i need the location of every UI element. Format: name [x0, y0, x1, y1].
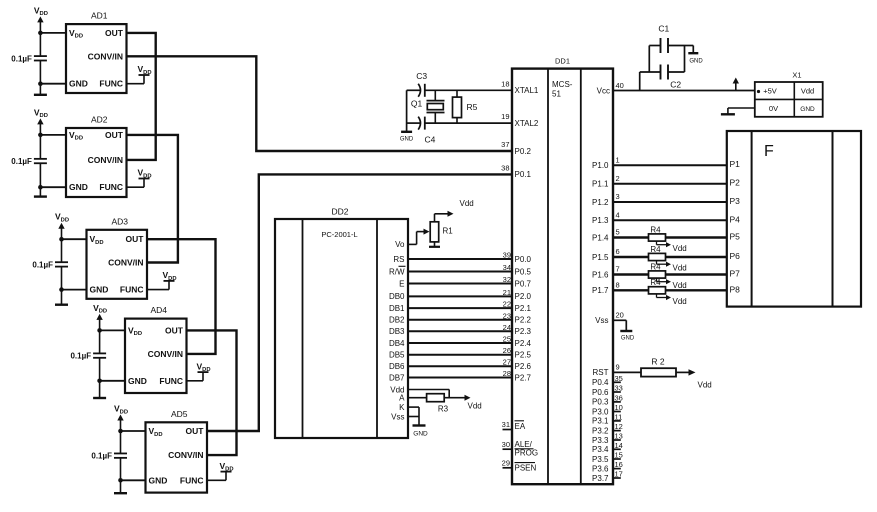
- svg-text:P1.2: P1.2: [592, 198, 609, 207]
- svg-text:GND: GND: [69, 182, 88, 192]
- power VDD symbol for AD4: [93, 303, 107, 331]
- resistor R4 pull-up on P1.7 with Vdd arrow: [649, 278, 687, 306]
- DD1 left pin labels XTAL1 XTAL2 P0.x P2.x: [515, 86, 539, 382]
- wire C1 to C2 right: [684, 46, 686, 73]
- svg-text:XTAL1: XTAL1: [515, 86, 539, 95]
- resistor R3 with Vdd arrow: [408, 394, 482, 414]
- svg-text:18: 18: [501, 79, 509, 88]
- wire DD1 P1.7 pin 8 to F P8: [592, 281, 727, 296]
- svg-text:+5V: +5V: [763, 87, 777, 96]
- DD1 P3.1 pin 11 stub: [592, 412, 622, 425]
- capacitor 0.1uF for AD2: [11, 135, 47, 187]
- svg-text:AD1: AD1: [91, 11, 108, 21]
- ground for DD2 K/Vss: [413, 426, 429, 438]
- indicator block F with pins P1-P8: [727, 131, 861, 307]
- svg-text:P0.3: P0.3: [592, 398, 609, 407]
- power VDD on AD1 FUNC pin: [127, 64, 152, 84]
- wire C1/C2 to ground: [685, 46, 694, 53]
- svg-text:Q1: Q1: [411, 99, 423, 109]
- svg-text:C3: C3: [416, 71, 427, 81]
- DD1 pin 19 number: [501, 112, 509, 121]
- svg-text:P1.1: P1.1: [592, 180, 609, 189]
- resistor R5: [453, 90, 478, 123]
- svg-text:P1.7: P1.7: [592, 286, 609, 295]
- svg-text:Vdd: Vdd: [801, 87, 814, 96]
- wire AD1 GND pin: [38, 81, 66, 86]
- DD1 P3.0 pin 10 stub: [592, 403, 623, 416]
- svg-text:9: 9: [616, 363, 620, 372]
- DD1 P3.4 pin 14 stub: [592, 441, 623, 454]
- IC DD2 PC-2001-L: [275, 207, 408, 439]
- power tap arrow on +5V rail: [733, 78, 739, 91]
- crystal Q1: [411, 90, 445, 123]
- svg-text:DB2: DB2: [389, 316, 405, 325]
- svg-text:P2.3: P2.3: [515, 327, 532, 336]
- svg-text:K: K: [399, 403, 405, 412]
- IC DD1 MCS-51 microcontroller: [512, 57, 613, 485]
- power VDD symbol for AD3: [55, 212, 69, 240]
- wire C1/C2 left leg to Vcc rail: [639, 72, 641, 91]
- svg-text:0.1µF: 0.1µF: [11, 157, 32, 166]
- svg-text:31: 31: [502, 420, 510, 429]
- wire AD4 GND pin: [97, 379, 125, 384]
- svg-text:P3.4: P3.4: [592, 445, 609, 454]
- connector X1: [755, 71, 823, 117]
- capacitor C3: [416, 71, 427, 97]
- svg-text:AD3: AD3: [111, 216, 128, 226]
- power VDD symbol for AD5: [114, 404, 128, 432]
- capacitor 0.1uF for AD3: [32, 239, 68, 289]
- svg-text:GND: GND: [69, 79, 88, 89]
- capacitor 0.1uF for AD1: [11, 33, 47, 84]
- svg-text:FUNC: FUNC: [99, 79, 123, 89]
- DD1 P3.7 pin 17 stub: [592, 470, 623, 483]
- wire DD2 DB6 to DD1 pin 27: [408, 358, 512, 367]
- svg-text:21: 21: [503, 288, 511, 297]
- svg-text:Vdd: Vdd: [673, 264, 687, 273]
- wire DD2 DB4 to DD1 pin 25: [408, 335, 512, 344]
- wire DD2 E to DD1 pin 32: [408, 275, 512, 284]
- power VDD symbol for AD1: [34, 5, 48, 33]
- svg-text:DD1: DD1: [555, 57, 570, 66]
- ground for X1 0V: [721, 113, 735, 115]
- wire AD2 VDD pin to rail: [38, 133, 66, 138]
- svg-text:CONV/IN: CONV/IN: [168, 450, 203, 460]
- capacitor C1: [649, 24, 684, 54]
- op-amp/ADC AD2: [66, 115, 127, 198]
- svg-text:GND: GND: [400, 137, 414, 143]
- svg-text:DB3: DB3: [389, 327, 405, 336]
- svg-text:GND: GND: [800, 106, 815, 113]
- ground for AD4: [93, 381, 106, 398]
- svg-text:P2: P2: [730, 178, 741, 188]
- wire AD5 OUT to DD1 P0.1 pin 38: [207, 174, 512, 431]
- wire X1 0V to ground: [728, 108, 755, 114]
- svg-text:P2.1: P2.1: [515, 304, 532, 313]
- wire DD2 Vo to R1 wiper: [408, 229, 430, 245]
- svg-text:P3.7: P3.7: [592, 474, 609, 483]
- wire DD2 DB1 to DD1 pin 22: [408, 300, 512, 309]
- svg-text:GND: GND: [149, 475, 168, 485]
- svg-text:P1.3: P1.3: [592, 216, 609, 225]
- svg-text:GND: GND: [621, 336, 635, 342]
- svg-text:34: 34: [503, 263, 511, 272]
- svg-text:30: 30: [502, 440, 510, 449]
- ground for AD2: [34, 187, 47, 196]
- svg-text:P3.6: P3.6: [592, 464, 609, 473]
- op-amp/ADC AD3: [87, 216, 148, 298]
- svg-text:C2: C2: [670, 80, 681, 90]
- svg-text:P3.3: P3.3: [592, 436, 609, 445]
- svg-text:Vcc: Vcc: [597, 87, 610, 96]
- DD1 pin 40 number: [616, 81, 624, 90]
- svg-text:R 2: R 2: [651, 357, 665, 367]
- power VDD symbol for AD2: [34, 107, 48, 134]
- wire AD1 CONV/IN to DD1 P0.2 pin 37: [127, 56, 513, 151]
- svg-text:AD2: AD2: [91, 115, 108, 125]
- svg-text:Vss: Vss: [595, 316, 608, 325]
- wire DD1 P1.1 pin 2 to F P2: [592, 174, 727, 189]
- svg-text:24: 24: [503, 323, 511, 332]
- ground for DD1 Vss: [620, 331, 635, 342]
- resistor R4 pull-up on P1.5 with Vdd arrow: [649, 245, 687, 273]
- svg-text:DB6: DB6: [389, 362, 405, 371]
- svg-text:8: 8: [616, 281, 620, 290]
- DD1 Vss pin 20: [595, 311, 626, 331]
- capacitor 0.1uF for AD4: [70, 330, 106, 380]
- svg-text:PC-2001-L: PC-2001-L: [321, 230, 357, 239]
- svg-text:28: 28: [503, 369, 511, 378]
- wire DD2 Vdd pin: [408, 390, 449, 398]
- svg-text:DB0: DB0: [389, 292, 405, 301]
- wire AD2 GND pin: [38, 185, 66, 190]
- svg-text:40: 40: [616, 81, 624, 90]
- svg-text:CONV/IN: CONV/IN: [108, 258, 143, 268]
- wire DD1 P1.6 pin 7 to F P7: [592, 265, 727, 280]
- svg-text:OUT: OUT: [126, 234, 145, 244]
- svg-text:37: 37: [501, 140, 509, 149]
- svg-text:FUNC: FUNC: [99, 182, 123, 192]
- svg-text:CONV/IN: CONV/IN: [88, 51, 123, 61]
- svg-text:P2.7: P2.7: [515, 373, 532, 382]
- svg-text:PROG: PROG: [515, 448, 539, 457]
- svg-text:GND: GND: [128, 376, 147, 386]
- svg-text:0.1µF: 0.1µF: [11, 54, 32, 63]
- power VDD on AD4 FUNC pin: [187, 361, 211, 381]
- op-amp/ADC AD5: [146, 409, 208, 493]
- svg-text:GND: GND: [689, 59, 703, 65]
- svg-text:P1.5: P1.5: [592, 253, 609, 262]
- wire DD2 R/W to DD1 pin 34: [408, 263, 512, 272]
- resistor R4 pull-up on P1.6 with Vdd arrow: [649, 262, 687, 290]
- DD2 right pin labels Vo RS R/W E DB0-DB7 Vdd A K Vss: [389, 240, 406, 421]
- svg-text:P4: P4: [730, 214, 741, 224]
- DD1 P0.6 pin 33 stub: [592, 384, 623, 397]
- svg-text:Vo: Vo: [395, 240, 405, 249]
- svg-text:OUT: OUT: [105, 130, 124, 140]
- svg-text:P6: P6: [730, 251, 741, 261]
- svg-text:C1: C1: [658, 24, 669, 34]
- DD1 P3.2 pin 12 stub: [592, 422, 623, 435]
- svg-text:Vss: Vss: [391, 412, 404, 421]
- svg-text:P3.2: P3.2: [592, 426, 609, 435]
- svg-text:XTAL2: XTAL2: [515, 119, 539, 128]
- svg-text:P3.1: P3.1: [592, 417, 609, 426]
- svg-text:DB7: DB7: [389, 373, 405, 382]
- svg-text:P5: P5: [730, 232, 741, 242]
- svg-text:P0.5: P0.5: [515, 267, 532, 276]
- svg-text:P0.7: P0.7: [515, 279, 532, 288]
- svg-text:R3: R3: [438, 405, 449, 414]
- svg-text:R5: R5: [467, 102, 478, 112]
- power VDD on AD2 FUNC pin: [127, 168, 152, 188]
- svg-text:P7: P7: [730, 269, 741, 279]
- svg-text:P0.6: P0.6: [592, 388, 609, 397]
- svg-text:6: 6: [616, 247, 620, 256]
- svg-text:FUNC: FUNC: [159, 376, 183, 386]
- wire DD2 DB3 to DD1 pin 24: [408, 323, 512, 332]
- svg-text:DB1: DB1: [389, 304, 405, 313]
- DD1 pin 37 number: [501, 140, 509, 149]
- svg-text:RST: RST: [593, 368, 609, 377]
- svg-text:OUT: OUT: [105, 28, 124, 38]
- svg-text:CONV/IN: CONV/IN: [88, 155, 123, 165]
- svg-text:GND: GND: [90, 285, 109, 295]
- ground for AD5: [114, 480, 127, 493]
- svg-text:R4: R4: [650, 262, 661, 271]
- svg-text:DB4: DB4: [389, 339, 405, 348]
- wire DD2 DB0 to DD1 pin 21: [408, 288, 512, 297]
- svg-text:FUNC: FUNC: [180, 475, 204, 485]
- svg-text:7: 7: [616, 265, 620, 274]
- resistor R4 pull-up on P1.4 with Vdd arrow: [649, 225, 687, 253]
- wire AD3 OUT to AD4 CONV/IN: [147, 239, 216, 354]
- svg-text:39: 39: [503, 251, 511, 260]
- wire DD1 P1.3 pin 4 to F P4: [592, 211, 727, 226]
- svg-text:P0.1: P0.1: [515, 170, 532, 179]
- op-amp/ADC AD4: [125, 305, 187, 393]
- svg-text:DD2: DD2: [331, 207, 348, 217]
- wire AD4 VDD pin to rail: [97, 328, 125, 333]
- svg-text:P0.2: P0.2: [515, 147, 532, 156]
- svg-text:20: 20: [616, 311, 624, 320]
- DD1 P0.3 pin 36 stub: [592, 393, 623, 406]
- svg-text:R4: R4: [650, 225, 661, 234]
- wire XTAL2 pin 19: [407, 122, 512, 124]
- svg-text:26: 26: [503, 346, 511, 355]
- svg-text:X1: X1: [792, 71, 801, 80]
- svg-text:R4: R4: [650, 278, 661, 287]
- wire AD2 OUT to AD3 CONV/IN: [127, 135, 178, 263]
- wire DD2 DB7 to DD1 pin 28: [408, 369, 512, 378]
- wire DD2 RS to DD1 pin 39: [408, 251, 512, 260]
- capacitor 0.1uF for AD5: [91, 431, 127, 480]
- svg-text:P0.0: P0.0: [515, 255, 532, 264]
- ground for crystal: [400, 132, 414, 143]
- svg-text:P0.4: P0.4: [592, 378, 609, 387]
- svg-text:P3: P3: [730, 196, 741, 206]
- svg-text:Vdd: Vdd: [460, 199, 474, 208]
- svg-text:23: 23: [503, 311, 511, 320]
- wire DD1 Vcc pin 40 to X1 +5V: [613, 90, 755, 92]
- potentiometer R1 with Vdd arrow: [429, 199, 474, 247]
- svg-text:P3.5: P3.5: [592, 455, 609, 464]
- wire DD1 P1.5 pin 6 to F P6: [592, 247, 727, 262]
- svg-text:32: 32: [503, 275, 511, 284]
- ground for C1/C2: [688, 53, 703, 64]
- DD1 P0.4 pin 35 stub: [592, 374, 623, 387]
- svg-text:RS: RS: [393, 255, 404, 264]
- svg-text:P1: P1: [730, 159, 741, 169]
- svg-text:4: 4: [616, 211, 620, 220]
- wire DD2 DB2 to DD1 pin 23: [408, 311, 512, 320]
- wire AD4 OUT to AD5 CONV/IN: [187, 330, 237, 455]
- wire DD2 K and Vss pins: [408, 407, 419, 425]
- wire XTAL1 pin 18: [407, 89, 512, 91]
- svg-text:2: 2: [616, 174, 620, 183]
- wire crystal left leg: [406, 90, 408, 131]
- DD1 P3.5 pin 15 stub: [592, 451, 623, 464]
- svg-text:F: F: [764, 143, 774, 160]
- op-amp/ADC AD1: [66, 11, 127, 93]
- ground for AD1: [34, 84, 47, 95]
- svg-text:A: A: [399, 394, 405, 403]
- svg-text:22: 22: [503, 300, 511, 309]
- wire C1 to C2 left: [648, 46, 650, 73]
- svg-text:AD4: AD4: [150, 305, 167, 315]
- svg-text:AD5: AD5: [171, 409, 188, 419]
- svg-text:3: 3: [616, 192, 620, 201]
- wire AD3 GND pin: [59, 287, 86, 292]
- DD1 pin 38 number: [501, 163, 509, 172]
- svg-text:38: 38: [501, 163, 509, 172]
- svg-text:Vdd: Vdd: [698, 380, 712, 389]
- DD1 P3.6 pin 16 stub: [592, 460, 623, 473]
- svg-text:51: 51: [552, 90, 561, 99]
- svg-text:P1.0: P1.0: [592, 161, 609, 170]
- svg-text:0.1µF: 0.1µF: [32, 260, 53, 269]
- ground for AD3: [55, 290, 68, 305]
- svg-text:OUT: OUT: [165, 325, 184, 335]
- svg-text:R1: R1: [443, 227, 454, 236]
- svg-text:P2.0: P2.0: [515, 292, 532, 301]
- wire AD5 GND pin: [118, 478, 145, 483]
- svg-text:25: 25: [503, 335, 511, 344]
- DD1 pin 18 number: [501, 79, 509, 88]
- svg-text:P1.6: P1.6: [592, 270, 609, 279]
- svg-text:P2.4: P2.4: [515, 339, 532, 348]
- svg-text:R4: R4: [650, 245, 661, 254]
- power VDD on AD5 FUNC pin: [207, 461, 234, 481]
- svg-text:FUNC: FUNC: [120, 285, 144, 295]
- svg-text:Vdd: Vdd: [468, 402, 482, 411]
- svg-text:0.1µF: 0.1µF: [91, 452, 112, 461]
- svg-text:CONV/IN: CONV/IN: [148, 349, 183, 359]
- svg-text:OUT: OUT: [186, 426, 205, 436]
- DD1 pin 30 ALE/PROG: [502, 440, 538, 458]
- DD1 RST pin 9: [593, 363, 642, 378]
- svg-text:GND: GND: [413, 430, 428, 437]
- svg-text:P1.4: P1.4: [592, 233, 609, 242]
- svg-text:1: 1: [616, 155, 620, 164]
- wire DD1 P1.4 pin 5 to F P5: [592, 228, 727, 243]
- svg-text:P2.5: P2.5: [515, 351, 532, 360]
- svg-text:0.1µF: 0.1µF: [70, 352, 91, 361]
- svg-text:Vdd: Vdd: [673, 244, 687, 253]
- DD1 pin 29 PSEN: [502, 458, 537, 472]
- power VDD on AD3 FUNC pin: [147, 270, 177, 290]
- svg-text:P2.2: P2.2: [515, 316, 532, 325]
- svg-text:E: E: [399, 279, 404, 288]
- svg-text:EA: EA: [515, 422, 526, 431]
- svg-text:P8: P8: [730, 284, 741, 294]
- wire AD5 VDD pin to rail: [118, 429, 145, 434]
- resistor R2 with Vdd arrow: [641, 357, 712, 390]
- wire AD3 VDD pin to rail: [59, 237, 86, 242]
- DD1 Vcc label: [597, 87, 610, 96]
- wire DD2 DB5 to DD1 pin 26: [408, 346, 512, 355]
- svg-text:Vdd: Vdd: [673, 297, 687, 306]
- svg-text:19: 19: [501, 112, 509, 121]
- wire AD1 OUT to AD2 CONV/IN: [127, 33, 156, 160]
- wire DD1 P1.0 pin 1 to F P1: [592, 155, 727, 170]
- svg-text:P3.0: P3.0: [592, 407, 609, 416]
- svg-text:0V: 0V: [769, 104, 778, 113]
- DD1 pin 31 EA: [502, 420, 526, 431]
- svg-text:DB5: DB5: [389, 351, 405, 360]
- wire DD1 P1.2 pin 3 to F P3: [592, 192, 727, 207]
- svg-text:29: 29: [502, 458, 510, 467]
- capacitor C4: [418, 117, 435, 145]
- svg-text:MCS-: MCS-: [552, 80, 573, 89]
- svg-text:Vdd: Vdd: [673, 281, 687, 290]
- capacitor C2: [640, 65, 685, 90]
- svg-text:R/W: R/W: [389, 267, 405, 276]
- svg-text:P2.6: P2.6: [515, 362, 532, 371]
- svg-text:27: 27: [503, 358, 511, 367]
- wire AD1 VDD pin to rail: [38, 31, 66, 36]
- DD1 P3.3 pin 13 stub: [592, 432, 623, 445]
- svg-text:C4: C4: [424, 134, 435, 144]
- svg-text:PSEN: PSEN: [515, 464, 537, 473]
- svg-text:5: 5: [616, 228, 620, 237]
